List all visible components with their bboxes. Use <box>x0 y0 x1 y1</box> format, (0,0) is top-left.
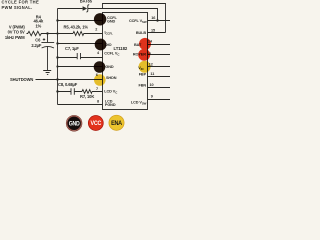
svg-text:ICCFL: ICCFL <box>105 31 114 36</box>
svg-text:2: 2 <box>95 27 97 31</box>
svg-text:FBP: FBP <box>139 73 147 77</box>
svg-text:CYCLE FOR THE: CYCLE FOR THE <box>2 0 40 4</box>
svg-text:R5, 43.2k, 1%: R5, 43.2k, 1% <box>64 25 89 30</box>
svg-text:9: 9 <box>151 95 153 99</box>
svg-text:BULB: BULB <box>136 31 147 35</box>
svg-text:PGND: PGND <box>105 103 116 107</box>
svg-text:11: 11 <box>150 72 154 76</box>
svg-text:R7, 10K: R7, 10K <box>80 94 94 99</box>
svg-text:1kHz PWM: 1kHz PWM <box>5 35 25 40</box>
svg-text:LT1182: LT1182 <box>114 46 128 51</box>
svg-text:10: 10 <box>150 83 154 87</box>
svg-text:GND: GND <box>69 122 81 128</box>
svg-text:15: 15 <box>151 28 155 32</box>
svg-text:0V TO 5V: 0V TO 5V <box>8 30 25 35</box>
svg-text:2.2µF: 2.2µF <box>31 43 42 48</box>
svg-text:C8, 0.68µF: C8, 0.68µF <box>58 82 78 87</box>
svg-text:GND: GND <box>107 20 115 24</box>
svg-text:SHUTDOWN: SHUTDOWN <box>10 77 33 82</box>
svg-text:SHDN: SHDN <box>106 76 117 80</box>
svg-text:FBN: FBN <box>138 83 146 87</box>
svg-text:C6: C6 <box>35 37 41 42</box>
svg-text:VCC: VCC <box>91 121 102 127</box>
svg-text:C7, 1µF: C7, 1µF <box>65 46 79 51</box>
svg-text:7: 7 <box>96 87 98 91</box>
svg-text:1%: 1% <box>35 23 41 28</box>
svg-text:PWM SIGNAL.: PWM SIGNAL. <box>2 5 33 10</box>
svg-text:ENA: ENA <box>111 121 123 127</box>
svg-text:8: 8 <box>97 100 99 104</box>
svg-text:16: 16 <box>151 16 155 20</box>
svg-text:GND: GND <box>105 65 113 69</box>
svg-text:BAT85: BAT85 <box>80 0 93 4</box>
